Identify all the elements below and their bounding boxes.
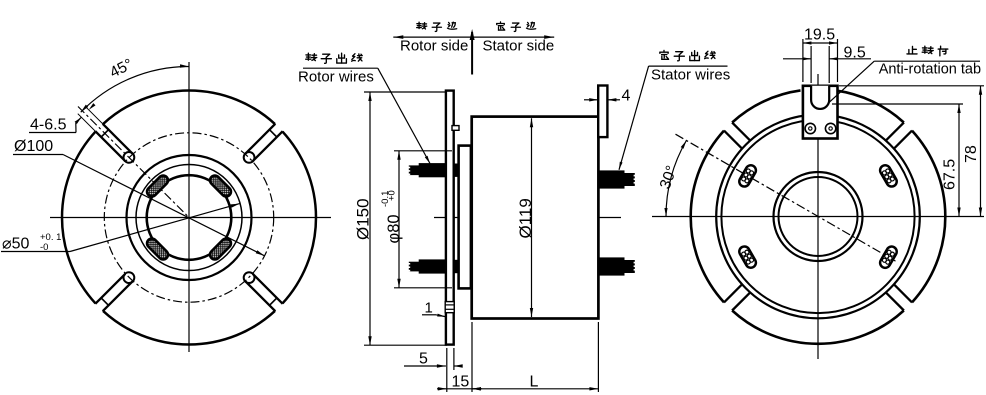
svg-text:67.5: 67.5 (942, 159, 959, 190)
label rotor wires CN (306, 53, 317, 60)
stator connector pad at 330 deg (878, 245, 898, 270)
vertical up arrow divider (471, 32, 473, 75)
rotor/stator side divider with arrows (393, 36, 554, 38)
slot end hole (123, 152, 134, 163)
svg-text:Stator wires: Stator wires (651, 67, 730, 84)
rotor wire bundle upper-left (419, 163, 446, 177)
O119 dimension (531, 118, 533, 317)
rotor wire bundle lower-left (419, 259, 446, 273)
bridge detail near flange top (452, 126, 459, 131)
svg-text:φ80: φ80 (385, 214, 403, 243)
stator wire bundle lower-right (598, 257, 624, 275)
label zhizhuanpian CN (907, 46, 917, 53)
svg-text:4: 4 (622, 88, 631, 105)
centerline horizontal (middle view) (434, 217, 621, 219)
label dingzibian (stator side CN) (497, 22, 505, 30)
svg-text:15: 15 (452, 374, 470, 391)
svg-text:5: 5 (419, 351, 428, 368)
slot cross tick (101, 298, 108, 305)
slot gap edges at 315 deg (rear view) (894, 284, 912, 302)
outer rim circle with slot gaps and tab gap (836, 90, 904, 122)
bolt circle O100 dash-dot (104, 133, 273, 302)
rotor hub O80 (459, 146, 471, 289)
mounting slot 6.5 wide at 135 deg (95, 131, 125, 161)
bore circle r44.5 (774, 172, 863, 261)
mounting slot 6.5 wide at 315 deg (253, 274, 283, 304)
rotor flange plate O150 (446, 91, 454, 345)
svg-text:Stator side: Stator side (483, 38, 555, 55)
slot cross tick (270, 130, 277, 137)
rotor connector pad at 135 deg (hatched) (145, 174, 170, 199)
stator connector pad at 150 deg (737, 163, 757, 188)
dim 78 (839, 85, 984, 87)
svg-text:Ø150: Ø150 (354, 198, 373, 240)
slot end hole (244, 152, 255, 163)
svg-text:Rotor wires: Rotor wires (298, 69, 374, 86)
step detail near flange bottom (dim 1) (445, 302, 454, 313)
svg-text:78: 78 (963, 145, 980, 163)
svg-text:Anti-rotation tab: Anti-rotation tab (879, 62, 981, 78)
slot gap edges at 45 deg (rear view) (886, 123, 904, 141)
slot end hole (123, 272, 134, 283)
slot cross tick (101, 130, 108, 137)
right view: stator-side face (652, 74, 984, 359)
stator connector pad at 30 deg (878, 163, 898, 188)
bore circle r39.5 (779, 177, 858, 256)
anti-rotation tab (front) (803, 86, 838, 139)
svg-text:-0.1: -0.1 (380, 191, 391, 207)
left view: rotor-side face (50, 62, 331, 352)
rotor connector pad at 45 deg (hatched) (208, 174, 233, 199)
stator connector pad at 210 deg (737, 245, 757, 270)
flange outer rim circle O150 with 4 slot gaps (103, 91, 275, 125)
centerline vertical (left view) (188, 62, 190, 352)
45-degree dash-dot centerline through top-left slot (78, 107, 189, 218)
svg-text:Ø100: Ø100 (14, 138, 53, 155)
30 deg dash-dot line (676, 134, 898, 262)
slot end hole (244, 272, 255, 283)
label zhuanzibian (rotor side CN) (417, 22, 427, 29)
tab screw left (805, 123, 815, 133)
tab U slot (811, 86, 829, 109)
bore circle O50 (147, 175, 232, 260)
stator body O119 (472, 117, 599, 319)
rotor connector pad at 315 deg (hatched) (208, 237, 233, 262)
svg-text:L: L (530, 374, 539, 391)
stator anti-rotation tab (side view, dim 4) (598, 86, 607, 138)
mounting slot 6.5 wide at 45 deg (245, 124, 275, 154)
svg-text:19.5: 19.5 (804, 27, 835, 44)
extension lines bottom dims (446, 348, 448, 392)
dim 67.5 (832, 103, 963, 105)
slot cross tick (270, 298, 277, 305)
svg-text:⌀50: ⌀50 (2, 236, 30, 253)
phi80 +0/-0.1 dimension (394, 150, 452, 152)
centerline vertical (right view) (817, 74, 819, 359)
45 deg dimension arc (81, 67, 189, 113)
stator wire bundle upper-right (598, 170, 624, 188)
O150 dimension (364, 91, 447, 93)
slot gap edges at 135 deg (rear view) (724, 131, 742, 149)
centerline horizontal (right view) (652, 216, 984, 218)
inner circle r62 (127, 155, 252, 280)
tab screw right (825, 123, 835, 133)
label stator wires CN (660, 50, 669, 59)
svg-text:4-6.5: 4-6.5 (30, 117, 67, 134)
centerline horizontal (left view) (50, 217, 331, 219)
inner circle r53 (136, 165, 242, 271)
mounting slot 6.5 wide at 225 deg (103, 281, 133, 311)
body silhouette circle r101.8 (716, 115, 920, 319)
30 deg dimension arc (666, 141, 686, 217)
slot gap edges at 225 deg (rear view) (732, 292, 750, 310)
svg-text:1: 1 (425, 300, 433, 317)
body silhouette circle r96.6 (721, 120, 914, 313)
rotor connector pad at 225 deg (hatched) (145, 237, 170, 262)
svg-text:Ø119: Ø119 (516, 198, 535, 238)
4-6.5 slot width dimension (75, 117, 82, 124)
svg-text:Rotor side: Rotor side (400, 38, 468, 55)
